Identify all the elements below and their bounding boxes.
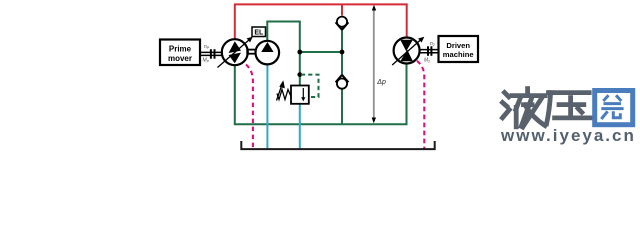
check valve CV1	[337, 17, 347, 27]
prime mover box	[160, 40, 200, 66]
wire green: below check valve CV2 to bottom bus	[341, 89, 343, 125]
node: junction charge line / relief riser	[297, 50, 302, 55]
wire green: vertical to relief valve RV1	[299, 21, 301, 86]
shaft motor M1 to driven machine	[419, 49, 438, 51]
wire green: between check valves CV1-CV2	[341, 29, 343, 75]
tank / reservoir	[241, 141, 434, 149]
shaft pump P1 to charge pump P2	[247, 50, 255, 54]
relief valve RV1 body	[291, 86, 309, 104]
wire green: horizontal from P2 outlet	[266, 21, 300, 23]
wire magenta dashed: motor M1 case drain to tank	[417, 61, 424, 149]
svg-text:www.iyeya.cn: www.iyeya.cn	[500, 126, 636, 145]
check valve CV2	[337, 79, 347, 89]
watermark logo: character YE (liquid)	[503, 89, 546, 127]
wire green: charge pump P2 outlet up	[266, 22, 268, 42]
relief valve RV1 adjustment arrow	[277, 85, 283, 101]
motor M1 variable arrow	[392, 40, 421, 65]
wire cyan: relief valve RV1 return to tank	[299, 104, 301, 148]
wire red: top high-pressure bus	[234, 3, 408, 5]
wire green dashed: relief valve pilot line	[301, 75, 319, 97]
pump P1 variable arrow	[218, 39, 250, 67]
wire green: motor M1 bottom port down	[406, 63, 408, 125]
svg-text:EL: EL	[254, 29, 264, 36]
controller EL box	[252, 27, 266, 37]
wire green: pump P1 bottom port down	[234, 64, 236, 124]
motor M1 (variable displacement)	[394, 38, 420, 64]
relief valve RV1 internal flow arrow	[302, 88, 304, 99]
svg-text:Driven: Driven	[446, 41, 470, 50]
charge pump P2	[255, 41, 279, 65]
coupling on output shaft	[427, 46, 429, 56]
watermark logo: character QUAN (circle) in blue	[595, 91, 633, 125]
measurement line delta-p	[373, 7, 375, 122]
wire red: top bus stub to check valve CV1	[341, 4, 343, 15]
wire magenta dashed: pump P1 case drain to tank	[246, 65, 253, 149]
coupling on input shaft	[210, 49, 212, 59]
node: junction charge line / check valve line	[340, 50, 345, 55]
shaft prime mover to pump P1	[200, 51, 223, 53]
watermark logo: character YA (pressure)	[547, 93, 592, 124]
wire green: bottom low-pressure bus	[234, 123, 408, 125]
pump P1 (variable displacement, bidirectional)	[222, 39, 248, 65]
wire cyan: charge pump P2 suction to tank	[266, 64, 268, 148]
wire red: pump P1 outlet to top bus	[234, 4, 236, 40]
wire red: top bus to motor M1 inlet	[406, 4, 408, 38]
svg-text:machine: machine	[443, 50, 474, 59]
wire green: horizontal charge line to check valves	[300, 51, 342, 53]
driven machine box	[439, 36, 479, 62]
svg-text:Δp: Δp	[376, 79, 386, 86]
svg-text:Prime: Prime	[169, 45, 192, 54]
svg-text:mover: mover	[168, 54, 192, 63]
node: junction pilot tap above relief valve	[297, 72, 302, 77]
relief valve RV1 spring	[277, 90, 291, 100]
